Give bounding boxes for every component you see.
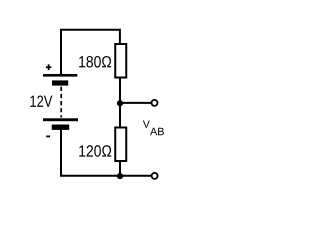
terminal B (open circle) [152,173,158,179]
resistor 180ohm body [115,44,126,78]
value label 12V [30,95,52,106]
junction node B [117,173,123,179]
battery 12V: dashed link between cells [60,87,62,118]
wire: battery + terminal up, across top, down to R1 top [61,30,120,75]
junction node A [117,100,123,106]
battery 12V: thick negative plate (cell 1) [52,80,68,85]
wire: R1 bottom through node A to R2 top [119,78,121,129]
label VAB : V [143,121,150,128]
wire: R2 bottom to node B [119,161,121,177]
battery 12V: positive long plate [43,74,77,77]
value label 120ohm [79,145,111,157]
battery 12V: positive long plate (cell 2) [43,118,78,121]
resistor 120ohm body [115,128,126,162]
wire: battery - terminal down to bottom rail [60,130,62,177]
battery + polarity sign [46,64,52,70]
wire: bottom rail from battery - to terminal B [60,175,151,177]
battery - polarity sign [46,135,50,137]
value label 180ohm [79,56,111,68]
label VAB : AB subscript [150,128,164,135]
terminal A (open circle) [152,100,158,106]
wire: node A to terminal A [120,102,151,104]
battery 12V: thick negative plate (cell 2) [52,125,69,130]
